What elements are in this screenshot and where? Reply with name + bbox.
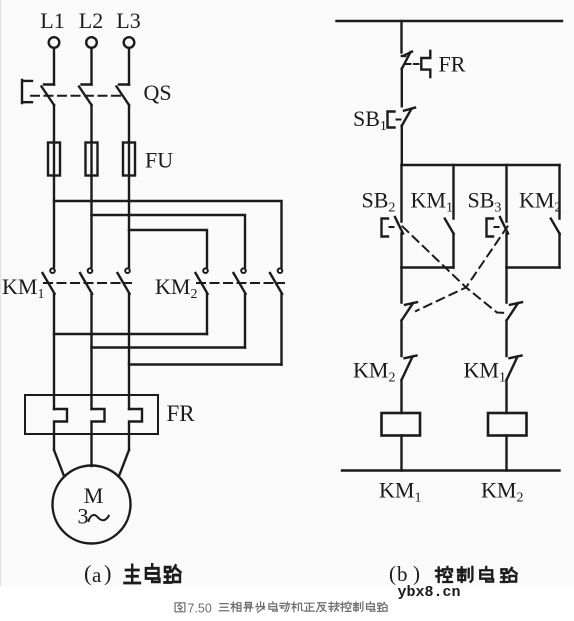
svg-text:3: 3 (78, 504, 89, 529)
svg-text:QS: QS (144, 80, 172, 105)
svg-text:L2: L2 (79, 8, 103, 33)
svg-text:FU: FU (145, 148, 173, 173)
svg-text:FR: FR (439, 52, 466, 77)
svg-text:b: b (397, 562, 408, 586)
svg-text:): ) (104, 561, 112, 586)
svg-text:(: ( (84, 561, 92, 586)
svg-text:7.50: 7.50 (188, 602, 212, 616)
svg-text:L1: L1 (40, 8, 64, 33)
svg-text:): ) (413, 562, 420, 586)
svg-text:ybx8.cn: ybx8.cn (398, 584, 461, 601)
svg-text:L3: L3 (116, 8, 140, 33)
svg-text:a: a (92, 563, 102, 587)
svg-text:(: ( (389, 562, 396, 586)
svg-text:FR: FR (167, 401, 196, 426)
